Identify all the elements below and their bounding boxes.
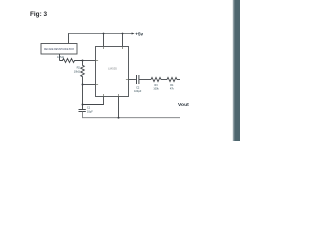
- pin tick top x=103: [103, 47, 105, 50]
- decade resistance box: [41, 44, 77, 55]
- pin tick bottom x=118: [118, 94, 120, 97]
- svg-text:DECADE RESISTANCE BOX: DECADE RESISTANCE BOX: [44, 47, 74, 51]
- pin tick left y=84: [96, 84, 99, 86]
- capacitor C1 10uF: [79, 107, 94, 114]
- svg-text:R2: R2: [77, 66, 81, 70]
- node junction on rail at x=122: [122, 33, 124, 35]
- node junction at (82,104): [82, 104, 84, 106]
- wire IC bottom pin 2 to ground rail: [118, 97, 120, 118]
- svg-text:10µF: 10µF: [87, 110, 93, 113]
- wire node down to C1: [82, 85, 84, 110]
- wire IC bottom pin to left node: [83, 97, 104, 105]
- wire decade box to R1: [59, 54, 61, 61]
- decorative right band gradient edge: [232, 0, 234, 141]
- capacitor C2 100uF: [134, 75, 142, 93]
- timer IC U1: [96, 47, 129, 97]
- wire C2 to R3: [139, 79, 151, 81]
- wire node to IC pin left-lower: [83, 84, 96, 86]
- svg-text:100µF: 100µF: [134, 90, 142, 93]
- wire R3 to R4: [161, 79, 167, 81]
- decorative right band: [234, 0, 240, 141]
- resistor R4 47k: [167, 77, 177, 90]
- svg-text:4.7kΩ: 4.7kΩ: [57, 55, 64, 59]
- node junction on rail at x=103: [103, 33, 105, 35]
- pin tick top x=122: [122, 47, 124, 50]
- wire rail to IC pin top-right: [122, 34, 124, 47]
- resistor R2 10k vertical: [74, 61, 85, 85]
- svg-text:C1: C1: [87, 107, 91, 110]
- svg-text:LM555: LM555: [108, 67, 117, 71]
- svg-text:Vout: Vout: [178, 102, 189, 108]
- wire node to IC pin left-upper: [83, 60, 96, 62]
- wire rail to decade box: [68, 34, 70, 44]
- svg-text:47k: 47k: [170, 87, 175, 90]
- svg-text:C2: C2: [136, 87, 140, 90]
- +5V arrow and label: [132, 32, 144, 37]
- node junction at ground rail: [118, 117, 120, 119]
- pin tick bottom x=103: [103, 94, 105, 97]
- pin tick left y=60: [96, 60, 99, 62]
- node junction at R2 bottom: [82, 84, 84, 86]
- wire rail to IC pin top-left: [103, 34, 105, 47]
- resistor R1 4.7k: [57, 55, 83, 62]
- wire R4 to Vout terminal: [177, 79, 180, 81]
- svg-text:Fig: 3: Fig: 3: [30, 11, 47, 18]
- svg-text:100k: 100k: [153, 87, 159, 90]
- wire IC output to C2: [129, 79, 136, 81]
- pin tick right y=79: [126, 79, 129, 81]
- svg-text:10kΩ: 10kΩ: [74, 69, 80, 73]
- wire C1 to ground rail and ground rail: [83, 112, 181, 118]
- svg-text:+5v: +5v: [135, 32, 143, 37]
- wire +5V top rail: [68, 33, 132, 35]
- resistor R3 100k: [151, 77, 161, 90]
- node junction R1 / R2: [82, 60, 84, 62]
